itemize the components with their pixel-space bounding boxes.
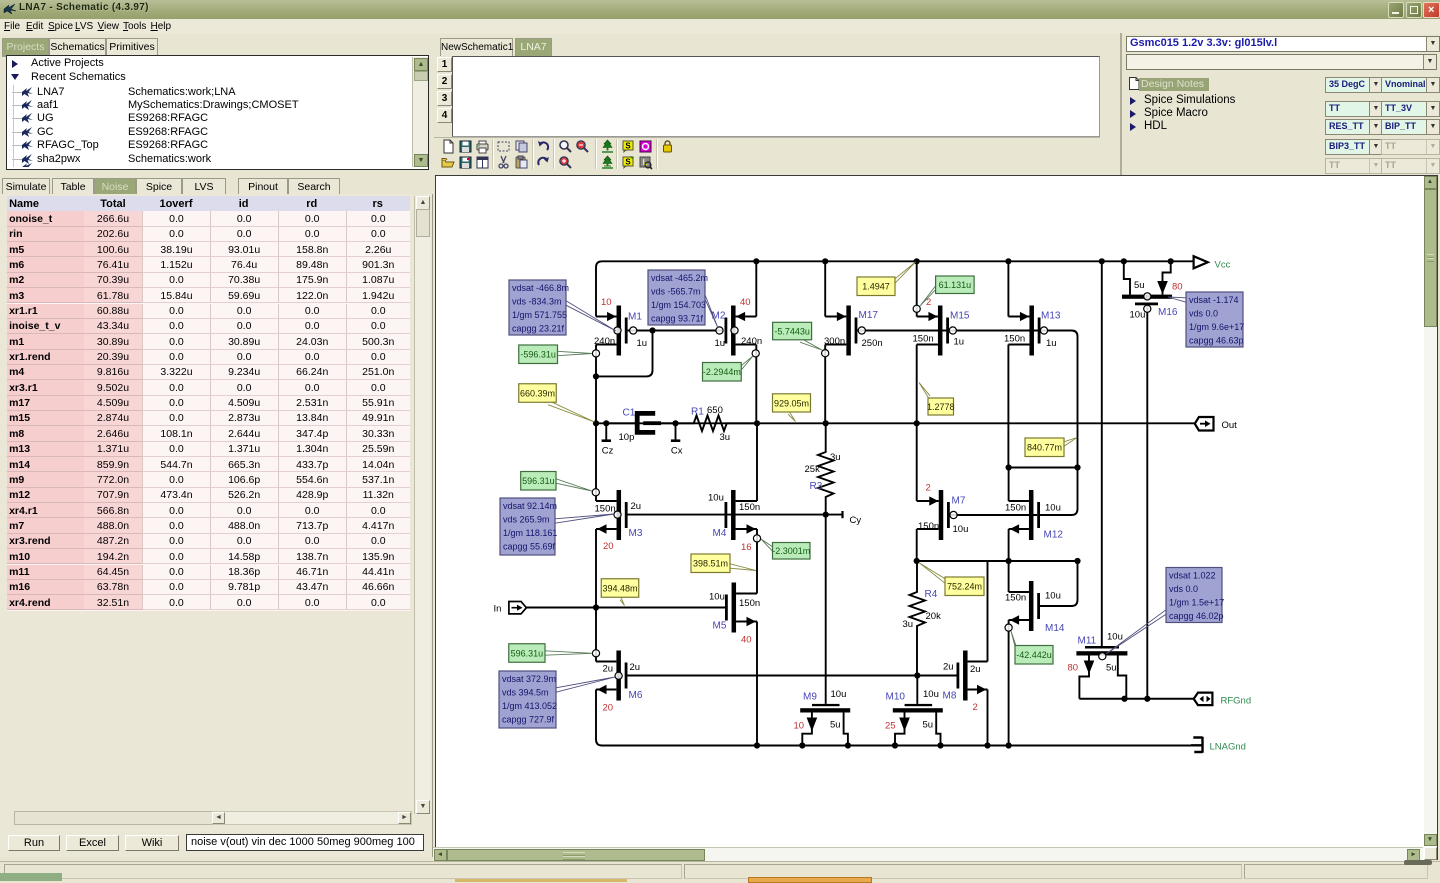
transistor M3 source arrow (NMOS) — [597, 524, 606, 533]
junction Out row / Cz — [603, 420, 609, 426]
voltage flag 929.05m on Out row — [788, 410, 796, 422]
ground symbol LNAGnd — [1191, 737, 1203, 753]
svg-text:vdsat -1.174: vdsat -1.174 — [1189, 295, 1239, 305]
transistor M6 channel bar — [616, 651, 621, 701]
probe M17 drain current — [822, 350, 829, 357]
wire M14 drain stub riser — [1008, 561, 1010, 592]
svg-text:M10: M10 — [886, 692, 906, 703]
wire M1 drain column to Out row and M3 drain — [595, 345, 597, 502]
wire node row M12 drain-gate tie — [1009, 467, 1078, 469]
svg-text:1u: 1u — [715, 338, 726, 349]
probe M14 source current — [1005, 624, 1012, 631]
transistor M2 drain/source stub bottom — [736, 344, 757, 346]
svg-text:5u: 5u — [1134, 280, 1145, 291]
svg-text:150n: 150n — [739, 598, 760, 609]
project tree box — [6, 55, 429, 170]
transistor M11 gate bar — [1085, 646, 1119, 649]
probe M3 gate-channel — [614, 511, 621, 518]
svg-text:2u: 2u — [970, 664, 981, 675]
wire M12 drain stub riser — [1008, 468, 1010, 502]
svg-text:1.2778: 1.2778 — [927, 402, 955, 412]
svg-text:10u: 10u — [1130, 310, 1146, 321]
minimize button — [1388, 2, 1404, 18]
transistor M14 drain/source stub bottom — [1009, 619, 1029, 621]
wire M10 gate drop — [916, 676, 918, 704]
junction M1-M2 gate node — [649, 327, 655, 333]
svg-text:M4: M4 — [713, 528, 727, 539]
probe M2 gate pin — [716, 327, 723, 334]
junction RFGnd row / M11 right foot — [1121, 696, 1127, 702]
junction M16 right foot / Vcc rail — [1168, 258, 1174, 264]
left panel tabs — [2, 38, 49, 57]
wire M1-M2 gate net — [628, 330, 724, 332]
svg-text:Cx: Cx — [671, 446, 683, 457]
svg-text:In: In — [494, 604, 502, 615]
wire In row from port to M5 gate — [527, 607, 726, 609]
svg-text:M5: M5 — [713, 621, 727, 632]
voltage flag 840.77m on gate bias column — [1064, 438, 1077, 447]
node Cy terminal tick — [841, 511, 843, 518]
transistor M11 channel bar — [1076, 651, 1127, 655]
transistor M2 drain/source stub top — [736, 316, 757, 318]
svg-text:RFGnd: RFGnd — [1221, 696, 1252, 707]
probe M16 gate — [1144, 305, 1151, 312]
wire M16 gate drop to RFGnd row — [1146, 305, 1148, 698]
transistor M16 source arrow (PMOS down) — [1157, 281, 1168, 294]
svg-text:2u: 2u — [603, 664, 614, 675]
svg-text:capgg 55.69f: capgg 55.69f — [503, 542, 556, 552]
junction LNAGnd rail / M8 source — [984, 742, 990, 748]
svg-text:150n: 150n — [1004, 334, 1025, 345]
svg-text:394.48m: 394.48m — [602, 583, 637, 593]
wire M8 drain riser to bias row — [987, 561, 989, 662]
transistor M1 source arrow (PMOS) — [607, 312, 616, 321]
probe M2 drain current — [752, 350, 759, 357]
junction Out row / Cx — [672, 420, 678, 426]
junction LNAGnd rail / M9 right — [845, 742, 851, 748]
svg-text:150n: 150n — [1005, 593, 1026, 604]
capacitor terminal Cz stub — [605, 423, 607, 440]
svg-text:25k: 25k — [805, 464, 821, 475]
svg-text:10: 10 — [601, 297, 612, 308]
svg-text:vds 265.9m: vds 265.9m — [503, 514, 550, 524]
svg-text:5u: 5u — [1106, 663, 1117, 674]
svg-text:S: S — [625, 158, 631, 167]
svg-text:10u: 10u — [709, 592, 725, 603]
svg-text:M13: M13 — [1041, 311, 1061, 322]
wire M4 drain riser to Out row — [756, 423, 758, 501]
current flag 61.131u at M15 source — [920, 283, 938, 306]
annotation box vdsat M2 — [705, 295, 718, 328]
transistor M2 source arrow (PMOS) — [736, 312, 745, 321]
wire M14 source drop to LNAGnd rail — [1008, 620, 1010, 746]
junction LNAGnd rail / M9 left — [799, 742, 805, 748]
svg-text:Vcc: Vcc — [1215, 260, 1231, 271]
svg-text:M11: M11 — [1078, 636, 1097, 647]
junction Cy row / R3 / M9 gate node — [823, 511, 829, 517]
probe M17 gate pin — [858, 327, 865, 334]
annotation box vdsat M1 — [566, 301, 616, 331]
svg-text:vdsat 1.022: vdsat 1.022 — [1169, 570, 1216, 580]
svg-text:1u: 1u — [637, 338, 648, 349]
junction M13 source / Vcc rail — [1005, 258, 1011, 264]
transistor M1 drain/source stub top — [596, 316, 617, 318]
wire M7-M12 gate net — [950, 514, 1037, 516]
svg-text:20: 20 — [603, 541, 614, 552]
junction Out row / M17 drain / R3 — [823, 420, 829, 426]
junction RFGnd row / M16 gate — [1144, 696, 1150, 702]
svg-text:M12: M12 — [1044, 530, 1064, 541]
svg-text:5u: 5u — [923, 720, 934, 731]
left panel tabs row2 — [94, 178, 136, 197]
transistor M7 drain/source stub top — [917, 500, 939, 502]
probe M15 source current — [913, 305, 920, 312]
transistor M4 gate bar — [725, 502, 728, 528]
svg-text:capgg 727.9f: capgg 727.9f — [502, 715, 555, 725]
svg-text:660.39m: 660.39m — [520, 388, 555, 398]
transistor M4 drain/source stub top — [736, 500, 757, 502]
svg-text:Cz: Cz — [602, 446, 614, 457]
svg-text:25: 25 — [885, 721, 896, 732]
svg-text:10u: 10u — [1107, 632, 1123, 643]
svg-text:vdsat 92.14m: vdsat 92.14m — [503, 501, 557, 511]
svg-text:vds 0.0: vds 0.0 — [1169, 584, 1198, 594]
svg-text:M7: M7 — [952, 496, 966, 507]
probe M4 source current — [753, 535, 760, 542]
transistor M1 gate bar — [625, 318, 628, 344]
svg-text:10: 10 — [794, 721, 805, 732]
probe M15 gate pin — [949, 327, 956, 334]
transistor M9 gate bar — [812, 704, 840, 706]
svg-text:vdsat -466.8m: vdsat -466.8m — [512, 283, 569, 293]
port In — [509, 602, 527, 614]
capacitor C1 10p left bracket plate — [637, 413, 655, 432]
wire M2 source drop from Vcc rail — [755, 261, 757, 316]
transistor M4 channel bar — [731, 490, 736, 540]
transistor M4 drain/source stub bottom — [736, 528, 757, 530]
svg-text:S: S — [625, 141, 631, 150]
junction Out row / M15 drain / M7 source — [914, 420, 920, 426]
wire M16 left foot to Vcc rail — [1124, 261, 1130, 294]
transistor M13 source arrow (PMOS) — [1020, 312, 1029, 321]
wire M16 right foot to Vcc rail — [1163, 261, 1171, 294]
transistor M9 left foot wire — [802, 713, 812, 746]
svg-text:150n: 150n — [739, 502, 760, 513]
svg-text:20: 20 — [603, 703, 614, 714]
junction M1 drain diode node — [593, 373, 599, 379]
transistor M3 drain/source stub top — [596, 500, 617, 502]
power symbol Vcc — [1194, 256, 1208, 268]
svg-text:1/gm 154.703: 1/gm 154.703 — [651, 300, 706, 310]
svg-text:R1: R1 — [691, 407, 704, 418]
transistor M1 channel bar — [617, 306, 622, 356]
transistor M12 channel bar — [1029, 490, 1034, 540]
svg-text:1u: 1u — [954, 337, 965, 348]
svg-text:150n: 150n — [1005, 503, 1026, 514]
svg-text:M15: M15 — [950, 311, 970, 322]
wire M12 gate bend up to diode node — [1040, 468, 1078, 516]
transistor M7 channel bar — [939, 490, 944, 540]
current flag 596.31u at M6 drain — [545, 651, 593, 655]
wire M13 source drop from Vcc rail — [1007, 261, 1009, 316]
probe M1 drain current — [592, 350, 599, 357]
menu bar — [0, 19, 1440, 34]
wire M15 source drop from Vcc rail — [916, 261, 918, 316]
transistor M17 drain/source stub top — [825, 316, 846, 318]
wire M6-M8 gate bias row — [627, 675, 956, 677]
probe M13 gate pin — [1040, 327, 1047, 334]
transistor M16 channel bar — [1122, 295, 1172, 299]
wire C1 right lead to Cx — [661, 422, 676, 424]
svg-text:300n: 300n — [824, 336, 845, 347]
svg-text:2u: 2u — [943, 662, 954, 673]
svg-text:752.24m: 752.24m — [947, 582, 982, 592]
transistor M13 channel bar — [1029, 306, 1034, 356]
svg-text:R3: R3 — [810, 481, 823, 492]
svg-text:40: 40 — [741, 635, 752, 646]
capacitor terminal Cx stub — [675, 423, 677, 440]
junction Out row / M2-M4 drains — [754, 420, 760, 426]
svg-text:M6: M6 — [629, 690, 643, 701]
transistor M11 left foot wire — [1079, 656, 1089, 699]
transistor M10 channel bar — [893, 708, 943, 712]
transistor M10 right foot wire — [936, 713, 940, 746]
svg-text:1/gm 118.161: 1/gm 118.161 — [503, 528, 557, 538]
svg-text:-42.442u: -42.442u — [1016, 650, 1052, 660]
probe M16 channel — [1144, 293, 1151, 300]
voltage flag 752.24m on R4 top node — [920, 563, 946, 583]
wire M14 drain-gate tie row — [917, 560, 1078, 562]
svg-text:1/gm 571.755: 1/gm 571.755 — [512, 310, 567, 320]
wire M3-M4 gate row to Cy — [627, 514, 842, 516]
svg-text:40: 40 — [740, 297, 751, 308]
probe M11 gate-channel — [1099, 653, 1106, 660]
current flag -42.442u at M14 source — [1011, 631, 1016, 650]
svg-text:C1: C1 — [623, 408, 636, 419]
transistor M10 gate bar — [905, 704, 933, 706]
annotation box vdsat M6 — [556, 677, 615, 692]
transistor M14 channel bar — [1029, 581, 1034, 631]
transistor M8 gate bar — [957, 663, 960, 689]
transistor M15 gate bar — [946, 318, 949, 344]
svg-text:20k: 20k — [926, 611, 942, 622]
probe M1 gate-channel — [614, 327, 621, 334]
svg-text:1/gm 9.6e+17: 1/gm 9.6e+17 — [1189, 322, 1244, 332]
transistor M9 source arrow (NMOS down) — [807, 718, 818, 732]
transistor M13 drain/source stub bottom — [1008, 344, 1029, 346]
junction M13 drain / M12 drain node — [1006, 464, 1012, 470]
svg-text:10u: 10u — [831, 689, 847, 700]
svg-text:M9: M9 — [803, 692, 817, 703]
svg-text:2: 2 — [926, 483, 931, 494]
wire M3 source drop to In row — [595, 529, 597, 608]
transistor M9 channel bar — [800, 708, 850, 712]
svg-text:1.4947: 1.4947 — [862, 282, 890, 292]
transistor M12 drain/source stub top — [1009, 500, 1029, 502]
svg-text:vdsat 372.9m: vdsat 372.9m — [502, 674, 556, 684]
wire M7 drain drop to bias row — [916, 529, 918, 561]
junction M16 left foot / Vcc rail — [1121, 258, 1127, 264]
transistor M11 source arrow (NMOS down) — [1084, 661, 1095, 675]
current flag -2.2944m at M2 drain — [741, 356, 753, 370]
junction LNAGnd rail / M14 source — [1006, 742, 1012, 748]
annotation box vdsat M11 — [1106, 610, 1166, 654]
svg-text:150n: 150n — [595, 504, 616, 515]
transistor M5 drain/source stub top — [736, 593, 757, 595]
transistor M5 gate bar — [725, 595, 728, 621]
transistor M9 right foot wire — [844, 713, 848, 746]
transistor M8 source arrow (NMOS) — [977, 685, 986, 694]
svg-text:vds 0.0: vds 0.0 — [1189, 308, 1218, 318]
wire M1 diode tie gate to drain — [596, 331, 653, 377]
annotation box vdsat M16 — [1168, 297, 1186, 302]
resistor R4 20k 3u — [910, 561, 926, 676]
junction LNAGnd rail / M10 right — [937, 742, 943, 748]
probe M2 channel — [731, 327, 738, 334]
lower-left pane background — [0, 194, 433, 857]
transistor M10 source arrow (NMOS down) — [899, 718, 910, 732]
transistor M6 source arrow (NMOS) — [597, 685, 606, 694]
transistor M15 drain/source stub bottom — [917, 344, 938, 346]
junction M17 source / Vcc rail — [822, 258, 828, 264]
transistor M12 drain/source stub bottom — [1009, 528, 1029, 530]
transistor M15 drain/source stub top — [917, 316, 938, 318]
transistor M5 source arrow (NMOS) — [747, 617, 756, 626]
svg-text:2u: 2u — [631, 501, 642, 512]
transistor M7 source arrow (PMOS) — [929, 496, 938, 505]
svg-text:capgg 93.71f: capgg 93.71f — [651, 314, 704, 324]
close button — [1423, 2, 1440, 19]
svg-text:398.51m: 398.51m — [693, 559, 728, 569]
svg-text:vds 394.5m: vds 394.5m — [502, 687, 549, 697]
junction M13 gate / M12 gate node — [1074, 464, 1080, 470]
wire M12 source to M14 drain-gate row — [1008, 529, 1010, 561]
transistor M16 gate bar — [1135, 303, 1158, 306]
transistor M6 drain/source stub top — [596, 661, 616, 663]
transistor M8 drain/source stub bottom — [968, 689, 988, 691]
svg-text:LNAGnd: LNAGnd — [1210, 742, 1246, 753]
wire C1 left lead — [606, 422, 635, 424]
transistor M7 drain/source stub bottom — [917, 528, 939, 530]
transistor M6 gate bar — [625, 663, 628, 689]
transistor M1 drain/source stub bottom — [596, 344, 617, 346]
wire M13 gate bend down to diode node — [1038, 331, 1078, 468]
transistor M17 gate bar — [855, 318, 858, 344]
svg-text:M3: M3 — [629, 528, 643, 539]
wire M6 source to LNAGnd rail — [596, 690, 1191, 746]
voltage flag 394.48m on In row — [620, 595, 625, 605]
svg-text:vds -565.7m: vds -565.7m — [651, 286, 701, 296]
svg-text:M1: M1 — [628, 312, 642, 323]
svg-text:-596.31u: -596.31u — [520, 350, 556, 360]
window title bar — [0, 0, 1440, 20]
svg-text:M16: M16 — [1158, 307, 1178, 318]
svg-text:10u: 10u — [923, 689, 939, 700]
svg-text:1/gm 413.052: 1/gm 413.052 — [502, 701, 557, 711]
current flag -5.7443u at M17 drain — [800, 338, 822, 350]
transistor M17 source arrow (PMOS) — [837, 312, 846, 321]
capacitor C1 right plate — [643, 421, 661, 425]
junction M11 gate / Vcc rail — [1099, 258, 1105, 264]
svg-text:-2.2944m: -2.2944m — [703, 367, 741, 377]
svg-text:80: 80 — [1172, 282, 1183, 293]
svg-text:250n: 250n — [862, 338, 883, 349]
resistor R1 650 3u — [676, 416, 758, 432]
svg-text:2: 2 — [973, 702, 978, 713]
voltage flag 1.4947 on Vcc rail — [895, 262, 916, 283]
junction M2 source / Vcc rail — [753, 258, 759, 264]
svg-text:vdsat -465.2m: vdsat -465.2m — [651, 273, 708, 283]
svg-text:R4: R4 — [925, 589, 938, 600]
wire M17 drain drop to Out row — [824, 345, 826, 424]
svg-text:2u: 2u — [630, 662, 641, 673]
wire M15 drain to M7 source below Out row — [916, 423, 918, 501]
transistor M5 channel bar — [732, 583, 737, 633]
probe M1 gate pin — [630, 327, 637, 334]
current flag -2.3001m at M4 source — [761, 539, 773, 551]
svg-text:10p: 10p — [619, 432, 635, 443]
transistor M3 gate bar — [625, 502, 628, 528]
svg-text:150n: 150n — [913, 334, 934, 345]
current flag -596.31u at M1 drain — [558, 351, 593, 355]
svg-text:240n: 240n — [741, 336, 762, 347]
wire M4 source to M5 drain — [756, 529, 758, 594]
voltage flag 1.2778 on M15 drain — [919, 383, 930, 401]
probe M7 gate pin — [950, 511, 957, 518]
wire M2 drain drop to Out row — [755, 345, 757, 424]
wire M8 source drop to LNAGnd rail — [987, 690, 989, 746]
svg-text:16: 16 — [741, 542, 752, 553]
transistor M17 drain/source stub bottom — [825, 344, 846, 346]
probe M3 drain current — [592, 489, 599, 496]
wire M9 gate drop from Cy row — [825, 515, 827, 704]
transistor M14 source arrow (NMOS) — [1010, 615, 1019, 624]
wire Out row — [596, 422, 1195, 424]
junction M14 gate tie node — [1074, 558, 1080, 564]
transistor M7 gate bar — [947, 502, 950, 528]
transistor M13 gate bar — [1038, 318, 1041, 344]
svg-text:650: 650 — [707, 405, 723, 416]
svg-text:3u: 3u — [720, 432, 731, 443]
capacitor terminal Cx tick — [671, 439, 680, 442]
current flag 596.31u at M3 drain — [556, 479, 592, 491]
transistor M3 drain/source stub bottom — [596, 528, 617, 530]
probe M6 gate-channel — [615, 672, 622, 679]
wire PMOS mirror gates M17-M15-M13 — [857, 330, 1038, 332]
junction Out row / M1-M3 column — [593, 420, 599, 426]
port RFGnd — [1194, 693, 1213, 706]
transistor M14 drain/source stub top — [1009, 591, 1029, 593]
annotation box vdsat M3 — [555, 514, 614, 523]
svg-text:Cy: Cy — [850, 515, 862, 526]
svg-text:150n: 150n — [918, 521, 939, 532]
transistor M4 source arrow (NMOS) — [747, 524, 756, 533]
wire M5 source drop to LNAGnd rail — [756, 622, 758, 746]
svg-text:10u: 10u — [1045, 503, 1061, 514]
transistor M13 drain/source stub top — [1008, 316, 1029, 318]
svg-text:capgg 23.21f: capgg 23.21f — [512, 324, 565, 334]
transistor M14 gate bar — [1037, 593, 1040, 619]
transistor M8 channel bar — [963, 651, 968, 701]
transistor M6 drain/source stub bottom — [596, 689, 616, 691]
voltage flag 660.39m at Out/Cz node — [548, 400, 595, 422]
wire M14 gate bend up — [1040, 561, 1078, 606]
wire RFGnd row — [1079, 698, 1193, 700]
svg-text:5u: 5u — [830, 720, 841, 731]
transistor M2 gate bar — [725, 318, 728, 344]
wire M6 drain riser from In row — [595, 608, 597, 662]
svg-text:M14: M14 — [1045, 623, 1065, 634]
